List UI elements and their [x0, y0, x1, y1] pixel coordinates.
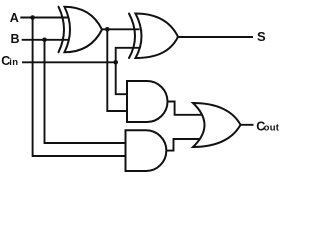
svg-text:S: S [257, 29, 266, 44]
svg-text:A: A [10, 11, 19, 25]
svg-text:B: B [11, 32, 20, 46]
svg-text:in: in [9, 57, 18, 68]
svg-text:out: out [264, 123, 280, 134]
